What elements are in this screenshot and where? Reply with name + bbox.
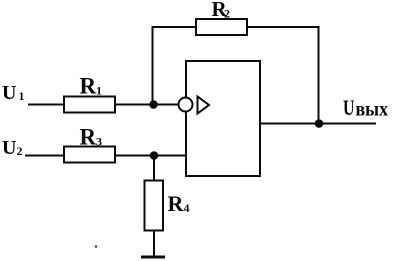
svg-text:R: R <box>80 125 97 150</box>
svg-text:вых: вых <box>356 99 389 121</box>
svg-text:2: 2 <box>17 144 23 158</box>
svg-text:4: 4 <box>184 201 190 215</box>
svg-text:R: R <box>80 74 97 99</box>
svg-text:1: 1 <box>96 84 102 98</box>
svg-text:U: U <box>2 137 16 159</box>
svg-text:R: R <box>168 191 185 216</box>
svg-text:U: U <box>343 95 355 120</box>
svg-text:3: 3 <box>96 135 102 149</box>
svg-text:2: 2 <box>224 7 230 21</box>
svg-text:1: 1 <box>19 89 25 103</box>
svg-text:U: U <box>2 82 16 104</box>
